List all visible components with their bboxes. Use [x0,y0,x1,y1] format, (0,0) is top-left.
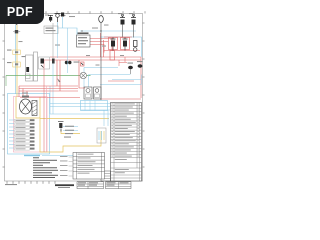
inline unit U1 on left riser [15,30,18,33]
revision block left of title [101,171,111,181]
PDF badge [0,0,44,24]
red wire: lower header [20,97,80,99]
yellow wire: drain stub [61,130,80,134]
cyan gauge manifold box [81,101,108,111]
yellow wire: lower loop [40,119,101,153]
gauge assembly box G2 [94,87,102,99]
blower B2 oval [138,64,143,68]
right ruler ticks [143,23,145,167]
terminal strip block [15,119,30,122]
red wire: riser to terminal [43,60,45,152]
parts list table [111,103,142,182]
flow arrow center [57,78,61,82]
cyan wire: gauge drops [84,68,89,88]
bottom strip title text [55,184,74,186]
signature labels with lines [60,155,68,158]
motor M1 symbol [56,14,60,18]
red wire: main pressure header pair [44,57,141,60]
small labels left column [7,50,12,51]
cyan wire: instrument line upper [84,67,118,69]
bottom ruler ticks [7,181,55,184]
control valve V3 top-right [131,16,136,18]
inline unit U3 yellow-frame [13,62,20,67]
yellow wire: manifold bottom [40,118,109,120]
bottom-left page info text [5,184,17,185]
strainer circle with X [80,72,86,78]
yellow wire: left riser [16,25,18,97]
hand valve HV1 with drain pot [134,41,138,47]
red wire: table feed [100,98,141,100]
filter element in box F1 [41,59,45,64]
drawing frame border [5,14,143,182]
cyan wire: right collector [100,75,142,85]
red box around solenoid valve SV2 [121,38,130,50]
control valve V2 top-right [120,16,125,18]
green wire: stub after strainer [87,75,91,77]
switch box label [78,33,89,34]
drain valve DV1 [59,123,62,128]
pump P1 circle with cross [20,99,32,114]
red wire: switch box outputs [90,39,112,53]
level gauge oval on standpipe [99,16,104,23]
filter box F1 outline [39,57,50,69]
inline unit U2 yellow-frame [13,50,20,55]
gray riser line from panel [52,23,54,58]
red wire: center drop to gauges [79,60,85,88]
cyan enclosure box around pump/terminal unit [8,94,50,155]
inline component on gray riser [52,59,55,64]
red box around solenoid valve SV1 [109,38,118,50]
cyan wire: drops below manifold [104,110,108,126]
gray outline: control panel box top-left [44,26,58,34]
gauge assembly box G1 [84,87,92,99]
check valve CV1 [81,62,85,66]
small fitting above pump [22,96,29,98]
top ruler ticks [46,11,145,13]
cyan wire: right header drop [100,37,142,57]
heater element H1 in tank [26,67,29,72]
cyan wire: instrument stubs near drain valve [63,127,78,131]
labels near drain valve [65,126,74,127]
switch box outline [77,35,91,47]
cyan manifold internal drops [85,101,95,111]
green wire: main supply line [6,75,80,77]
solenoid pair S1 [65,61,68,64]
bottom strip table B [106,182,132,189]
notes list [33,156,39,159]
cyan wire: left riser companion [14,25,16,94]
junction dots [100,30,101,31]
pump motor block hatched [32,101,37,116]
valve V1 top-left with actuator [50,15,52,22]
cylinder tank T1 outline [26,55,34,81]
red box on header right [110,51,115,61]
instrument cluster top-left corner [14,17,20,18]
cyan wire: lower manifold line [50,113,111,115]
pink wire: riser to terminal [46,86,48,152]
cyan wire: manifold lines to parts table [50,104,111,111]
cyan label under enclosure [24,155,40,156]
yellow pump enclosure box [16,97,40,118]
red wire: valve cluster loops [101,33,141,57]
pink inner enclosure box [14,97,48,153]
cyan wire: bottom long link [42,155,76,157]
cyan wire: riser pair center [50,60,53,114]
vent component top [61,13,64,17]
red wire: right riser [140,57,142,98]
cyan wire: instrument line lower [89,74,131,76]
red wire: pump header triple [19,86,78,91]
cyan riser to solenoid [58,28,68,73]
red wire: pump feed drops [19,60,60,97]
left ruler ticks [3,23,5,167]
blower B1 oval [128,66,133,70]
cylinder tank T2 outline [34,52,38,81]
solenoid valve SV2 mid-right [123,38,128,40]
scattered tiny labels [45,15,49,16]
red wire: right feeder stubs [108,57,134,81]
cyan wire: terminal stubs [9,120,14,148]
valve stems top right [123,25,134,38]
accumulator box right [97,128,106,143]
cyan wire: top header [58,17,137,35]
center standpipe line [100,23,102,100]
signature table center-bottom [73,153,105,180]
solenoid valve SV1 mid-right [111,38,116,40]
green wire: left drop [5,76,7,87]
bottom strip table A [77,182,104,189]
